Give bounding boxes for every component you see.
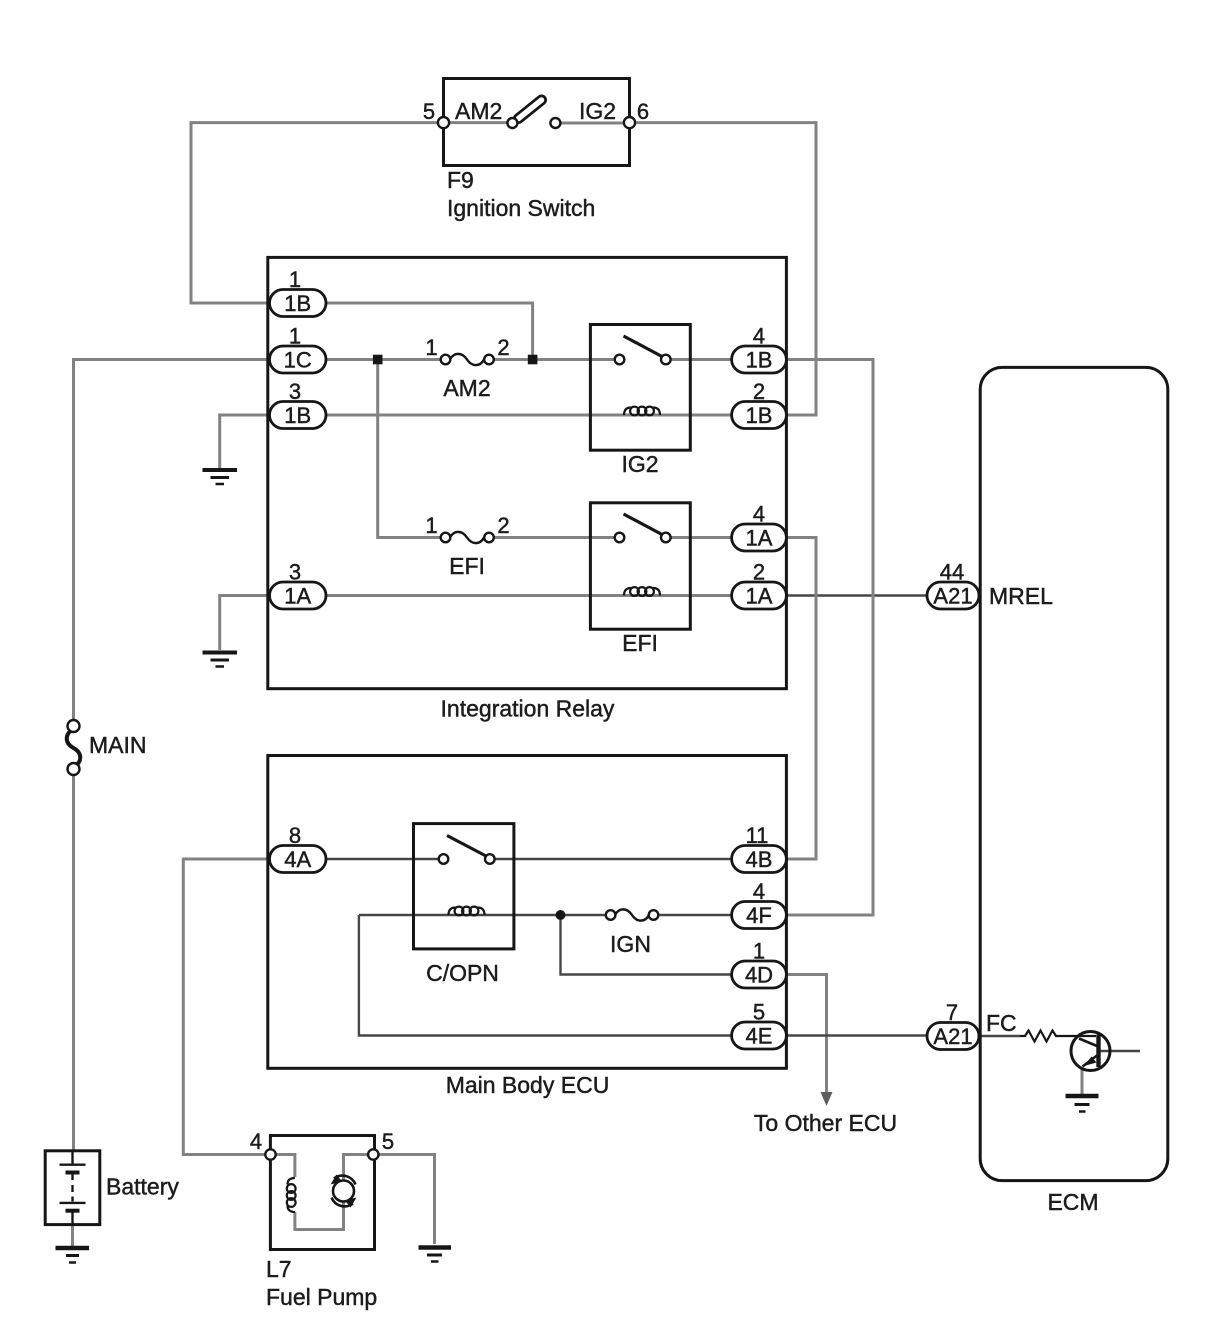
junction: C/OPN coil node bbox=[556, 910, 566, 920]
svg-text:1: 1 bbox=[289, 324, 301, 349]
relay EFI bbox=[590, 503, 690, 629]
main body ECU box bbox=[268, 756, 787, 1069]
junction: AM2 fuse output node bbox=[528, 355, 538, 365]
svg-text:5: 5 bbox=[753, 1000, 765, 1025]
svg-text:3: 3 bbox=[289, 379, 301, 404]
terminal 4F(4) bbox=[732, 902, 787, 929]
terminal 1B(1) bbox=[270, 290, 327, 317]
svg-text:1: 1 bbox=[753, 939, 765, 964]
svg-text:2: 2 bbox=[753, 379, 765, 404]
wire: C/OPN coil to IGN fuse to 4F bbox=[359, 914, 607, 916]
svg-text:11: 11 bbox=[746, 823, 769, 848]
svg-text:5: 5 bbox=[423, 99, 435, 124]
battery bbox=[45, 1151, 100, 1225]
terminal 1A(3) bbox=[270, 582, 327, 609]
svg-text:Integration Relay: Integration Relay bbox=[441, 696, 615, 722]
junction: 1C node bbox=[373, 355, 383, 365]
svg-text:4: 4 bbox=[753, 324, 765, 349]
ground (relay 1B-3) bbox=[203, 470, 238, 484]
svg-text:2: 2 bbox=[497, 335, 509, 360]
svg-text:1B: 1B bbox=[284, 403, 311, 428]
ground (battery) bbox=[56, 1248, 90, 1263]
svg-text:1B: 1B bbox=[284, 291, 311, 316]
svg-text:MREL: MREL bbox=[989, 583, 1053, 609]
wire: transistor emitter to ground bbox=[1081, 1068, 1084, 1094]
fuel pump L7 bbox=[265, 1136, 378, 1250]
svg-text:4F: 4F bbox=[746, 903, 772, 928]
svg-text:1B: 1B bbox=[746, 403, 773, 428]
wire: C/OPN switch to 4B bbox=[490, 858, 735, 860]
svg-text:4E: 4E bbox=[746, 1024, 773, 1049]
relay IG2 bbox=[590, 325, 690, 451]
svg-text:7: 7 bbox=[946, 1000, 958, 1025]
wire: relay 1A(4) to ECU terminal 4B bbox=[786, 538, 816, 860]
fusible link MAIN bbox=[67, 720, 81, 775]
fuel pump motor bbox=[333, 1181, 354, 1202]
wire: junction to terminal 4D bbox=[561, 915, 736, 975]
terminal 1B(2) bbox=[732, 402, 787, 429]
connector A21 pin 7 (FC) bbox=[927, 1023, 979, 1050]
svg-text:Fuel Pump: Fuel Pump bbox=[266, 1284, 377, 1310]
wire: FC resistor lead inside ECM bbox=[980, 1035, 1020, 1037]
wire: transistor collector bbox=[1099, 1050, 1141, 1052]
terminal 1A(4) bbox=[732, 524, 787, 551]
terminal 4A(8) bbox=[270, 846, 327, 873]
svg-text:IG2: IG2 bbox=[579, 98, 616, 124]
relay C/OPN bbox=[414, 824, 514, 949]
wire: relay 1B(3) to ground bbox=[220, 415, 272, 468]
ECM box bbox=[980, 367, 1168, 1180]
svg-text:4A: 4A bbox=[284, 847, 311, 872]
wire: MAIN link to battery bbox=[72, 774, 75, 1152]
svg-text:Ignition Switch: Ignition Switch bbox=[447, 195, 595, 221]
svg-text:2: 2 bbox=[753, 560, 765, 585]
svg-text:EFI: EFI bbox=[622, 630, 658, 656]
svg-text:2: 2 bbox=[497, 513, 509, 538]
wire: EFI fuse to EFI relay switch bbox=[489, 536, 620, 539]
svg-text:3: 3 bbox=[289, 560, 301, 585]
wire: fuel pump internal pin 4 to coil bbox=[275, 1155, 295, 1178]
wire: motor to pin 5 bbox=[344, 1155, 369, 1181]
wire: fuel pump pin 5 to ground bbox=[378, 1155, 435, 1245]
svg-text:EFI: EFI bbox=[449, 553, 485, 579]
wire: ECU internal 4A to C/OPN switch bbox=[322, 858, 444, 860]
terminal 4D(1) bbox=[732, 961, 787, 988]
fuel pump terminal 5 bbox=[368, 1149, 378, 1159]
fuel pump coil bbox=[288, 1178, 295, 1185]
svg-text:5: 5 bbox=[382, 1129, 394, 1154]
wire: battery negative to ground bbox=[71, 1224, 74, 1246]
svg-text:1A: 1A bbox=[284, 584, 311, 609]
wire: fuel pump coil to motor bbox=[295, 1202, 344, 1230]
wire: relay internal 1C to AM2 fuse to IG2 switch bbox=[322, 358, 446, 361]
svg-text:4B: 4B bbox=[746, 847, 773, 872]
wire: relay internal 1B(1) branch to AM2 fuse output bbox=[322, 303, 533, 360]
ground (ECM transistor emitter) bbox=[1066, 1096, 1099, 1112]
svg-text:6: 6 bbox=[637, 99, 649, 124]
svg-text:IG2: IG2 bbox=[621, 451, 658, 477]
transistor (ECM output) bbox=[1071, 1032, 1110, 1071]
svg-text:1: 1 bbox=[425, 513, 437, 538]
svg-text:Main Body ECU: Main Body ECU bbox=[446, 1072, 610, 1098]
wire: relay 1A(2) to ECM A21-44 MREL bbox=[786, 594, 927, 596]
wire: relay 1A(3) through EFI coil to 1A(2) bbox=[322, 594, 735, 597]
svg-text:1: 1 bbox=[425, 335, 437, 360]
svg-text:4D: 4D bbox=[745, 963, 773, 988]
ignition switch F9 bbox=[438, 79, 635, 166]
svg-text:1: 1 bbox=[289, 267, 301, 292]
svg-text:ECM: ECM bbox=[1047, 1189, 1098, 1215]
wire: relay 1C to MAIN fusible link and battery bbox=[74, 360, 281, 722]
wire: EFI switch to terminal 1A(4) bbox=[666, 536, 735, 539]
svg-text:AM2: AM2 bbox=[455, 98, 502, 124]
wire: relay 1B(3) through IG2 coil to 1B(2) bbox=[322, 414, 735, 417]
integration relay box bbox=[268, 257, 787, 688]
terminal 1B(4) bbox=[732, 346, 787, 373]
svg-text:4: 4 bbox=[250, 1129, 262, 1154]
svg-text:IGN: IGN bbox=[610, 931, 651, 957]
svg-text:8: 8 bbox=[289, 823, 301, 848]
ground (fuel pump) bbox=[419, 1248, 452, 1262]
svg-text:1B: 1B bbox=[746, 348, 773, 373]
fuse IGN bbox=[606, 909, 659, 920]
svg-text:To Other ECU: To Other ECU bbox=[754, 1110, 897, 1136]
terminal 1A(2) bbox=[732, 582, 787, 609]
svg-text:44: 44 bbox=[940, 560, 964, 585]
wire: relay internal junction to EFI fuse bbox=[378, 360, 446, 538]
wire: relay 1B(4) to ECU terminal 4F bbox=[786, 360, 873, 916]
terminal 1B(3) bbox=[270, 402, 327, 429]
wire: IG2 switch to terminal 1B(4) bbox=[666, 358, 735, 361]
resistor (ECM FC pull) bbox=[1020, 1031, 1096, 1042]
svg-text:4: 4 bbox=[753, 502, 765, 527]
wire: 4D to other ECU bbox=[786, 975, 827, 1095]
arrow to other ECU bbox=[821, 1092, 833, 1106]
fuse EFI bbox=[441, 532, 494, 543]
ground (relay 1A-3) bbox=[203, 653, 238, 667]
svg-text:F9: F9 bbox=[447, 167, 474, 193]
svg-text:1A: 1A bbox=[746, 584, 773, 609]
svg-text:A21: A21 bbox=[933, 1024, 972, 1049]
fuel pump terminal 4 bbox=[265, 1149, 275, 1159]
wire: 4E to ECM A21-7 FC bbox=[786, 1034, 927, 1036]
svg-text:A21: A21 bbox=[933, 584, 972, 609]
fuse AM2 bbox=[441, 354, 494, 365]
svg-text:C/OPN: C/OPN bbox=[426, 960, 499, 986]
wire: ECU 4A to fuel pump pin 4 bbox=[183, 859, 280, 1155]
wire: relay 1A(3) to ground bbox=[220, 596, 272, 651]
wire: ignition switch pin 5 to relay terminal 1B(1) bbox=[191, 123, 444, 303]
terminal 1C(1) bbox=[270, 346, 327, 373]
svg-text:4: 4 bbox=[753, 879, 765, 904]
svg-text:1C: 1C bbox=[284, 348, 312, 373]
wire: C/OPN coil loop to terminal 4E bbox=[359, 915, 735, 1036]
terminal 4B(11) bbox=[732, 846, 787, 873]
svg-text:1A: 1A bbox=[746, 526, 773, 551]
svg-text:L7: L7 bbox=[266, 1256, 292, 1282]
wire: ignition switch pin 6 to relay coil terminal 1B(2) bbox=[630, 123, 817, 415]
svg-text:AM2: AM2 bbox=[443, 375, 490, 401]
svg-text:Battery: Battery bbox=[106, 1174, 179, 1200]
svg-text:MAIN: MAIN bbox=[89, 732, 147, 758]
connector A21 pin 44 (MREL) bbox=[927, 582, 979, 609]
terminal 4E(5) bbox=[732, 1022, 787, 1049]
svg-text:FC: FC bbox=[986, 1010, 1017, 1036]
